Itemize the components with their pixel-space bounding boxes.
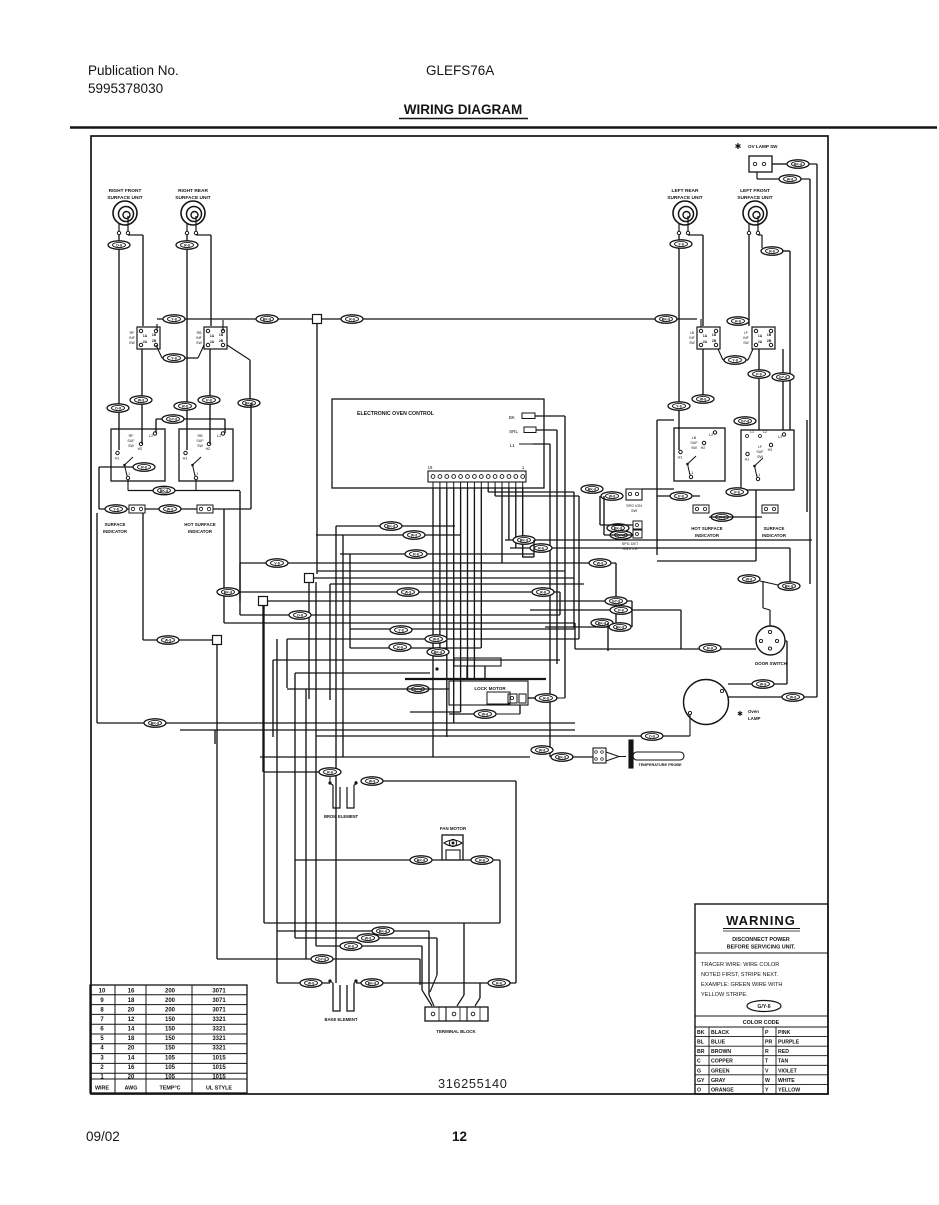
svg-text:O-8: O-8 bbox=[297, 614, 303, 618]
svg-text:Y-8: Y-8 bbox=[171, 318, 176, 322]
svg-text:SUF: SUF bbox=[690, 441, 698, 445]
svg-text:Y-8: Y-8 bbox=[398, 629, 403, 633]
svg-text:L1: L1 bbox=[750, 430, 754, 434]
svg-text:W-8: W-8 bbox=[790, 696, 797, 700]
svg-text:2A: 2A bbox=[758, 340, 763, 344]
svg-text:INF: INF bbox=[129, 336, 135, 340]
svg-text:20: 20 bbox=[128, 1008, 135, 1014]
svg-text:Y-8: Y-8 bbox=[676, 405, 681, 409]
svg-text:BK-8: BK-8 bbox=[616, 626, 624, 630]
svg-text:W-8: W-8 bbox=[700, 398, 707, 402]
svg-text:AWG: AWG bbox=[125, 1086, 138, 1092]
svg-text:W-8: W-8 bbox=[167, 508, 174, 512]
svg-text:1B: 1B bbox=[152, 333, 157, 337]
svg-text:BL: BL bbox=[697, 1040, 705, 1046]
svg-text:BAKE ELEMENT: BAKE ELEMENT bbox=[324, 1017, 357, 1022]
svg-text:LEFT FRONT: LEFT FRONT bbox=[740, 188, 770, 194]
svg-text:BK-8: BK-8 bbox=[379, 930, 387, 934]
svg-text:INF: INF bbox=[689, 336, 694, 340]
svg-text:09/02: 09/02 bbox=[86, 1129, 120, 1144]
svg-text:H1: H1 bbox=[183, 457, 188, 461]
svg-text:BK-8: BK-8 bbox=[520, 539, 528, 543]
svg-text:12: 12 bbox=[452, 1129, 467, 1144]
svg-text:L1: L1 bbox=[510, 443, 516, 448]
svg-text:200: 200 bbox=[165, 988, 176, 994]
svg-text:L2: L2 bbox=[217, 434, 221, 438]
svg-text:LOCK MOTOR: LOCK MOTOR bbox=[474, 686, 506, 691]
svg-text:TRACER WIRE: WIRE COLOR: TRACER WIRE: WIRE COLOR bbox=[701, 962, 779, 968]
svg-text:RF: RF bbox=[130, 331, 135, 335]
svg-text:P-8: P-8 bbox=[756, 373, 762, 377]
svg-text:GLEFS76A: GLEFS76A bbox=[426, 63, 494, 78]
svg-text:12: 12 bbox=[128, 1017, 135, 1023]
svg-text:R-8: R-8 bbox=[543, 697, 549, 701]
svg-text:Y-8: Y-8 bbox=[732, 359, 737, 363]
svg-text:WARNING: WARNING bbox=[726, 913, 796, 928]
svg-text:H1: H1 bbox=[678, 456, 683, 460]
svg-text:1A: 1A bbox=[758, 334, 763, 338]
svg-text:SURFACE UNIT: SURFACE UNIT bbox=[175, 195, 211, 201]
svg-text:GY-8: GY-8 bbox=[318, 958, 326, 962]
svg-text:VIOLET: VIOLET bbox=[778, 1068, 798, 1074]
svg-text:ORANGE: ORANGE bbox=[711, 1087, 734, 1093]
svg-text:P-8: P-8 bbox=[206, 399, 212, 403]
svg-text:INDICATOR: INDICATOR bbox=[103, 529, 128, 534]
svg-text:LB: LB bbox=[690, 331, 695, 335]
svg-text:W-8: W-8 bbox=[746, 578, 753, 582]
svg-text:V-8: V-8 bbox=[274, 562, 279, 566]
svg-text:RIGHT REAR: RIGHT REAR bbox=[178, 188, 208, 194]
svg-text:SW: SW bbox=[128, 444, 134, 448]
svg-text:O-8: O-8 bbox=[116, 244, 122, 248]
svg-text:BLACK: BLACK bbox=[711, 1030, 729, 1036]
svg-text:TERMINAL BLOCK: TERMINAL BLOCK bbox=[436, 1029, 476, 1034]
svg-text:20: 20 bbox=[128, 1046, 135, 1052]
svg-text:LEFT REAR: LEFT REAR bbox=[672, 188, 699, 194]
svg-text:R-8: R-8 bbox=[182, 405, 188, 409]
svg-text:INDICATOR: INDICATOR bbox=[762, 533, 787, 538]
svg-text:1A: 1A bbox=[210, 334, 215, 338]
svg-text:OV LAMP SW: OV LAMP SW bbox=[748, 144, 778, 149]
svg-text:14: 14 bbox=[128, 1027, 135, 1033]
svg-text:W-8: W-8 bbox=[308, 982, 315, 986]
svg-text:PR: PR bbox=[765, 1040, 772, 1046]
svg-text:RF: RF bbox=[129, 434, 135, 438]
svg-text:BK-8: BK-8 bbox=[224, 591, 232, 595]
svg-text:SURFACE: SURFACE bbox=[764, 526, 785, 531]
svg-text:105: 105 bbox=[165, 1055, 176, 1061]
svg-text:BK-8: BK-8 bbox=[263, 318, 271, 322]
svg-text:C: C bbox=[697, 1059, 701, 1065]
svg-text:LF: LF bbox=[744, 331, 748, 335]
svg-text:INDICATOR: INDICATOR bbox=[695, 533, 720, 538]
svg-text:SPG IGN: SPG IGN bbox=[626, 504, 642, 508]
svg-text:105: 105 bbox=[165, 1065, 176, 1071]
svg-text:Y-8: Y-8 bbox=[171, 357, 176, 361]
svg-text:YELLOW STRIPE.: YELLOW STRIPE. bbox=[701, 992, 748, 998]
svg-text:SW: SW bbox=[757, 455, 763, 459]
svg-text:✱: ✱ bbox=[737, 710, 743, 718]
svg-text:GY-8: GY-8 bbox=[169, 418, 177, 422]
svg-text:BK-8: BK-8 bbox=[588, 488, 596, 492]
svg-text:RIGHT FRONT: RIGHT FRONT bbox=[109, 188, 142, 194]
svg-text:L2: L2 bbox=[763, 430, 767, 434]
svg-text:W-8: W-8 bbox=[597, 562, 604, 566]
svg-text:RB: RB bbox=[197, 331, 203, 335]
svg-text:LB: LB bbox=[692, 436, 697, 440]
svg-text:INDICATOR: INDICATOR bbox=[188, 529, 213, 534]
svg-text:Y-8: Y-8 bbox=[678, 243, 683, 247]
svg-text:2A: 2A bbox=[703, 340, 708, 344]
svg-text:TEMP°C: TEMP°C bbox=[159, 1086, 180, 1092]
svg-text:H2: H2 bbox=[701, 446, 706, 450]
svg-text:L2: L2 bbox=[778, 435, 782, 439]
svg-text:GY-8: GY-8 bbox=[741, 420, 749, 424]
svg-text:V: V bbox=[765, 1068, 769, 1074]
svg-text:2B: 2B bbox=[219, 339, 224, 343]
svg-text:P-8: P-8 bbox=[734, 491, 740, 495]
svg-text:SW: SW bbox=[197, 444, 203, 448]
svg-text:R-8: R-8 bbox=[496, 982, 502, 986]
svg-text:SW: SW bbox=[743, 341, 749, 345]
svg-text:EXAMPLE: GREEN WIRE WITH: EXAMPLE: GREEN WIRE WITH bbox=[701, 982, 782, 988]
svg-text:BK-8: BK-8 bbox=[160, 489, 168, 493]
svg-text:Y-8: Y-8 bbox=[113, 508, 118, 512]
svg-text:WIRE: WIRE bbox=[95, 1086, 109, 1092]
svg-text:GY-8: GY-8 bbox=[612, 600, 620, 604]
svg-text:150: 150 bbox=[165, 1036, 176, 1042]
svg-text:SURFACE UNIT: SURFACE UNIT bbox=[737, 195, 773, 201]
svg-text:BK-8: BK-8 bbox=[558, 756, 566, 760]
svg-text:BK: BK bbox=[697, 1030, 705, 1036]
svg-text:BR: BR bbox=[697, 1049, 705, 1055]
svg-text:FAN MOTOR: FAN MOTOR bbox=[440, 826, 467, 831]
svg-text:2B: 2B bbox=[767, 339, 772, 343]
svg-text:R-8: R-8 bbox=[327, 771, 333, 775]
svg-text:SW: SW bbox=[129, 341, 135, 345]
svg-text:H2: H2 bbox=[138, 447, 143, 451]
svg-text:BK-8: BK-8 bbox=[417, 859, 425, 863]
svg-text:1015: 1015 bbox=[212, 1074, 226, 1080]
svg-text:DOOR SWITCH: DOOR SWITCH bbox=[755, 661, 787, 666]
svg-text:3321: 3321 bbox=[212, 1046, 226, 1052]
svg-text:W: W bbox=[765, 1078, 770, 1084]
svg-text:Publication No.: Publication No. bbox=[88, 63, 179, 78]
svg-text:O: O bbox=[697, 1087, 701, 1093]
svg-text:Y: Y bbox=[765, 1087, 769, 1093]
svg-text:P-8: P-8 bbox=[678, 495, 684, 499]
svg-text:RB: RB bbox=[198, 434, 204, 438]
svg-text:WIRING DIAGRAM: WIRING DIAGRAM bbox=[404, 102, 523, 117]
svg-text:1015: 1015 bbox=[212, 1065, 226, 1071]
svg-text:SUF: SUF bbox=[127, 439, 135, 443]
svg-text:DISCONNECT POWER: DISCONNECT POWER bbox=[732, 937, 790, 943]
svg-text:GY-8: GY-8 bbox=[779, 376, 787, 380]
svg-text:3321: 3321 bbox=[212, 1036, 226, 1042]
svg-text:5995378030: 5995378030 bbox=[88, 81, 163, 96]
svg-text:BK-8: BK-8 bbox=[434, 651, 442, 655]
svg-text:SURFACE UNIT: SURFACE UNIT bbox=[107, 195, 143, 201]
svg-text:YELLOW: YELLOW bbox=[778, 1087, 800, 1093]
svg-text:150: 150 bbox=[165, 1027, 176, 1033]
svg-text:R-8: R-8 bbox=[413, 553, 419, 557]
svg-text:18: 18 bbox=[128, 1036, 135, 1042]
svg-text:16: 16 bbox=[128, 988, 135, 994]
svg-text:GY: GY bbox=[697, 1078, 705, 1084]
svg-text:3071: 3071 bbox=[212, 998, 226, 1004]
svg-text:14: 14 bbox=[128, 1055, 135, 1061]
svg-text:2B: 2B bbox=[152, 339, 157, 343]
svg-text:SRL: SRL bbox=[509, 429, 518, 434]
svg-text:150: 150 bbox=[165, 1017, 176, 1023]
svg-text:H1: H1 bbox=[745, 458, 750, 462]
svg-text:H2: H2 bbox=[206, 447, 211, 451]
svg-text:1B: 1B bbox=[712, 333, 717, 337]
svg-text:1A: 1A bbox=[703, 334, 708, 338]
svg-text:2A: 2A bbox=[143, 340, 148, 344]
svg-text:R-8: R-8 bbox=[769, 250, 775, 254]
svg-text:R-8: R-8 bbox=[479, 859, 485, 863]
svg-text:NOTED FIRST, STRIPE NEXT.: NOTED FIRST, STRIPE NEXT. bbox=[701, 972, 779, 978]
svg-text:R-8: R-8 bbox=[141, 466, 147, 470]
svg-text:R-8: R-8 bbox=[184, 244, 190, 248]
svg-text:INF: INF bbox=[743, 336, 748, 340]
svg-text:BK: BK bbox=[509, 415, 516, 420]
svg-text:2B: 2B bbox=[712, 339, 717, 343]
svg-text:R-8: R-8 bbox=[348, 945, 354, 949]
svg-text:2A: 2A bbox=[210, 340, 215, 344]
svg-text:19: 19 bbox=[428, 465, 433, 470]
svg-text:1015: 1015 bbox=[212, 1055, 226, 1061]
svg-text:SW: SW bbox=[196, 341, 202, 345]
svg-text:W-8: W-8 bbox=[539, 749, 546, 753]
svg-text:BK-8: BK-8 bbox=[151, 722, 159, 726]
svg-text:W-8: W-8 bbox=[405, 591, 412, 595]
svg-text:SUF: SUF bbox=[196, 439, 204, 443]
svg-text:W-8: W-8 bbox=[165, 639, 172, 643]
svg-text:200: 200 bbox=[165, 1008, 176, 1014]
svg-text:H1: H1 bbox=[115, 457, 120, 461]
svg-text:W-8: W-8 bbox=[433, 638, 440, 642]
svg-text:3071: 3071 bbox=[212, 988, 226, 994]
svg-text:G: G bbox=[697, 1068, 701, 1074]
svg-text:BROWN: BROWN bbox=[711, 1049, 731, 1055]
svg-text:BLUE: BLUE bbox=[711, 1040, 726, 1046]
svg-text:LAMP: LAMP bbox=[748, 716, 761, 721]
svg-text:SURFACE UNIT: SURFACE UNIT bbox=[667, 195, 703, 201]
svg-text:COPPER: COPPER bbox=[711, 1059, 733, 1065]
svg-text:GRAY: GRAY bbox=[711, 1078, 726, 1084]
svg-text:ELECTRONIC OVEN CONTROL: ELECTRONIC OVEN CONTROL bbox=[357, 411, 435, 417]
svg-text:O-8: O-8 bbox=[649, 735, 655, 739]
svg-text:SW: SW bbox=[631, 509, 638, 513]
svg-text:1A: 1A bbox=[143, 334, 148, 338]
svg-text:✱: ✱ bbox=[735, 142, 742, 151]
svg-text:R-8: R-8 bbox=[707, 647, 713, 651]
svg-text:UL STYLE: UL STYLE bbox=[206, 1086, 232, 1092]
svg-text:1B: 1B bbox=[219, 333, 224, 337]
svg-text:16: 16 bbox=[128, 1065, 135, 1071]
svg-text:R-8: R-8 bbox=[540, 591, 546, 595]
svg-text:3071: 3071 bbox=[212, 1008, 226, 1014]
svg-text:TEMPERATURE PROBE: TEMPERATURE PROBE bbox=[638, 763, 682, 767]
svg-text:316255140: 316255140 bbox=[438, 1076, 507, 1091]
svg-text:BK-8: BK-8 bbox=[794, 163, 802, 167]
svg-text:O-8: O-8 bbox=[115, 407, 121, 411]
svg-text:20: 20 bbox=[128, 1074, 135, 1080]
svg-text:R: R bbox=[765, 1049, 769, 1055]
svg-text:COLOR CODE: COLOR CODE bbox=[743, 1020, 780, 1026]
svg-text:BK-8: BK-8 bbox=[662, 318, 670, 322]
svg-text:W-8: W-8 bbox=[787, 178, 794, 182]
svg-text:HOT SURFACE: HOT SURFACE bbox=[691, 526, 723, 531]
svg-text:PURPLE: PURPLE bbox=[778, 1040, 800, 1046]
svg-text:R-8: R-8 bbox=[538, 547, 544, 551]
svg-text:P: P bbox=[765, 1030, 769, 1036]
svg-text:SURFACE: SURFACE bbox=[105, 522, 126, 527]
svg-text:3321: 3321 bbox=[212, 1027, 226, 1033]
svg-text:W-8: W-8 bbox=[760, 683, 767, 687]
svg-text:W-8: W-8 bbox=[482, 713, 489, 717]
svg-text:SPG DET: SPG DET bbox=[622, 542, 639, 546]
svg-text:18: 18 bbox=[128, 998, 135, 1004]
svg-text:10: 10 bbox=[99, 988, 106, 994]
svg-text:PINK: PINK bbox=[778, 1030, 791, 1036]
svg-text:BEFORE SERVICING UNIT.: BEFORE SERVICING UNIT. bbox=[727, 945, 796, 951]
svg-text:W-8: W-8 bbox=[411, 534, 418, 538]
svg-text:BK-8: BK-8 bbox=[387, 525, 395, 529]
svg-text:INF: INF bbox=[196, 336, 202, 340]
svg-text:R-8: R-8 bbox=[349, 318, 355, 322]
svg-text:WHITE: WHITE bbox=[778, 1078, 795, 1084]
svg-text:R-8: R-8 bbox=[735, 320, 741, 324]
svg-text:1B: 1B bbox=[767, 333, 772, 337]
svg-text:Oven: Oven bbox=[748, 709, 759, 714]
svg-text:H2: H2 bbox=[768, 448, 773, 452]
svg-text:L2: L2 bbox=[149, 434, 153, 438]
svg-text:GREEN: GREEN bbox=[711, 1068, 730, 1074]
svg-text:SUF: SUF bbox=[756, 450, 764, 454]
svg-text:HOT SURFACE: HOT SURFACE bbox=[184, 522, 216, 527]
svg-text:200: 200 bbox=[165, 998, 176, 1004]
svg-text:150: 150 bbox=[165, 1046, 176, 1052]
svg-text:R-8: R-8 bbox=[397, 646, 403, 650]
svg-text:BK-8: BK-8 bbox=[245, 402, 253, 406]
svg-text:TAN: TAN bbox=[778, 1059, 789, 1065]
svg-text:SW: SW bbox=[689, 341, 695, 345]
svg-text:BK-8: BK-8 bbox=[598, 622, 606, 626]
svg-text:BK-8: BK-8 bbox=[785, 585, 793, 589]
svg-text:105: 105 bbox=[165, 1074, 176, 1080]
svg-text:W-8: W-8 bbox=[609, 495, 616, 499]
svg-text:G/Y-6: G/Y-6 bbox=[757, 1004, 770, 1010]
svg-text:BK-8: BK-8 bbox=[614, 527, 622, 531]
svg-text:BK-8: BK-8 bbox=[368, 982, 376, 986]
svg-text:L2: L2 bbox=[709, 433, 713, 437]
svg-text:P-8: P-8 bbox=[618, 609, 624, 613]
svg-text:BROIL ELEMENT: BROIL ELEMENT bbox=[324, 814, 359, 819]
svg-text:3321: 3321 bbox=[212, 1017, 226, 1023]
svg-text:RED: RED bbox=[778, 1049, 789, 1055]
svg-text:W-8: W-8 bbox=[138, 399, 145, 403]
svg-text:W-8: W-8 bbox=[369, 780, 376, 784]
svg-text:W-8: W-8 bbox=[365, 937, 372, 941]
svg-text:SW: SW bbox=[691, 446, 697, 450]
